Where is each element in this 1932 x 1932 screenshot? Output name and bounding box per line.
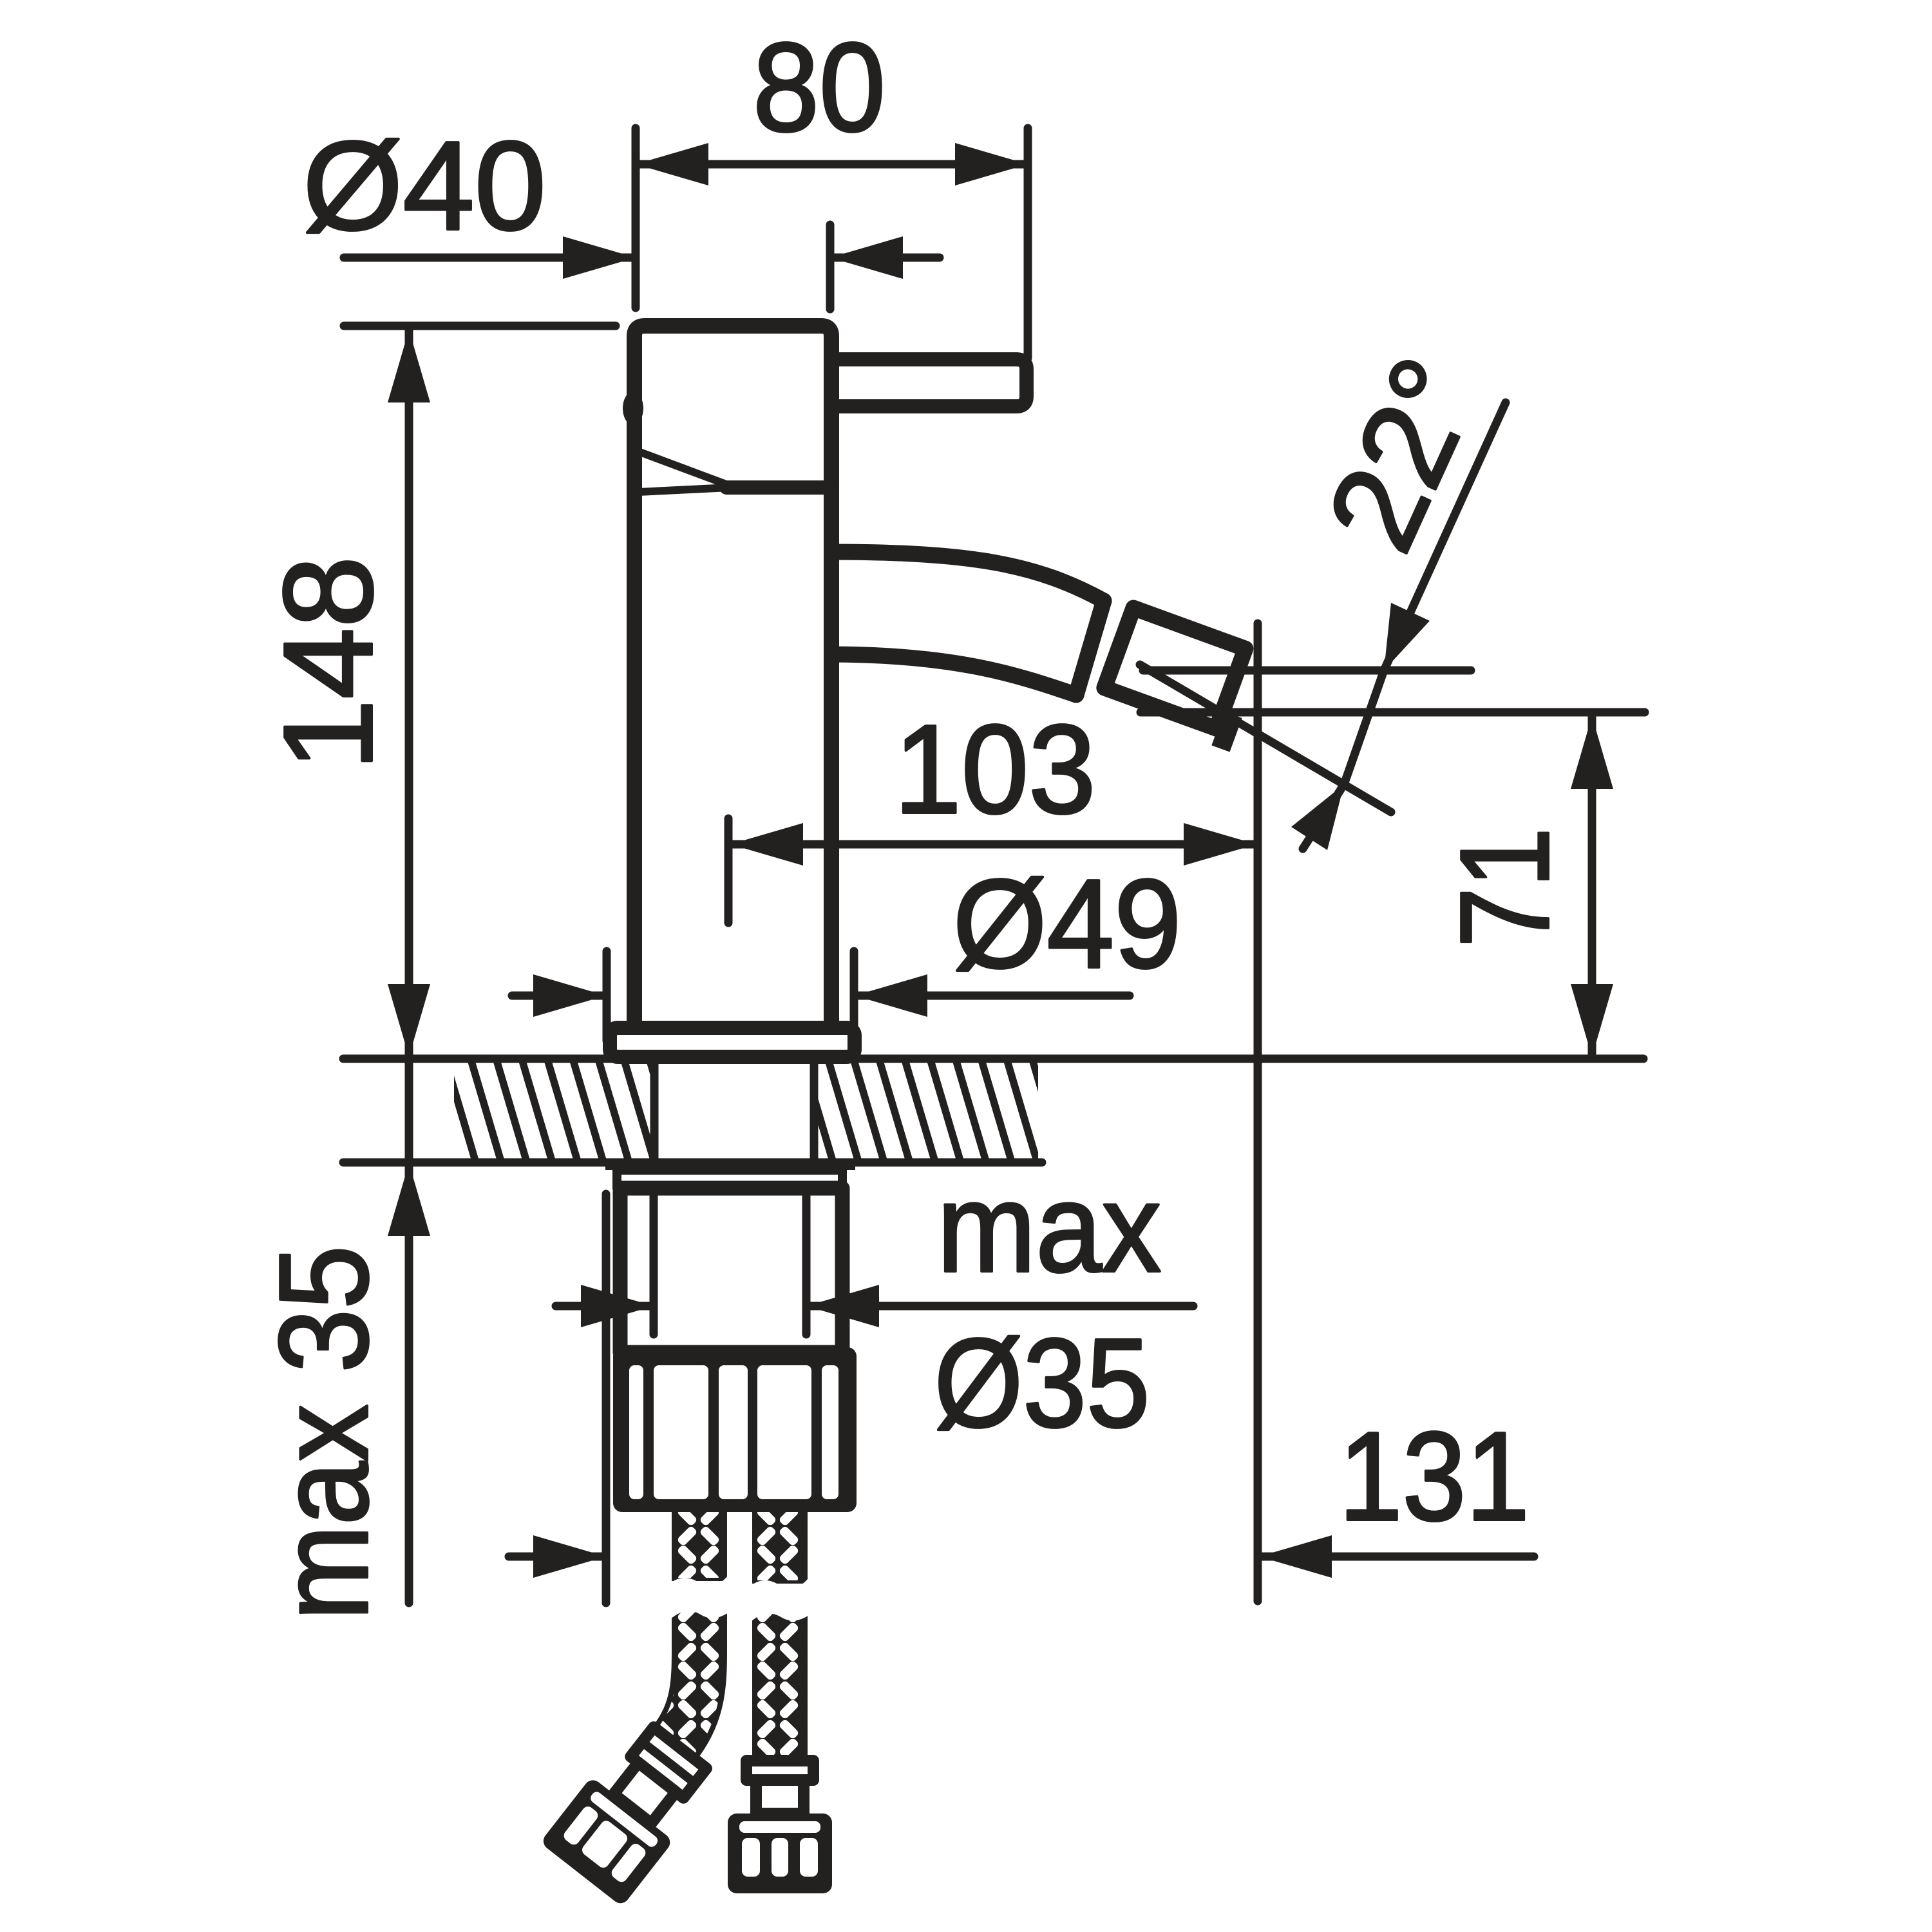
dimension max35: label [253, 1245, 394, 1620]
dimension 103: extension line stub [724, 819, 733, 923]
faucet spout [828, 552, 1104, 695]
dimension 148: bottom arrowhead [388, 984, 430, 1057]
dimension max35: up arrowhead [388, 1163, 430, 1236]
threaded shank right facet line [802, 1192, 811, 1334]
dimension D49: extension line right [850, 951, 858, 1041]
hose break cut waves [670, 1575, 728, 1596]
dimension maxD35: dimension line left part [556, 1302, 654, 1311]
svg-text:71: 71 [1434, 828, 1575, 947]
dimension 131: dimension line right part [1259, 1553, 1534, 1561]
svg-text:Ø40: Ø40 [303, 115, 546, 256]
dimension 103: left arrowhead [730, 823, 803, 866]
right hose end fitting with union nut [728, 1761, 832, 1893]
svg-text:80: 80 [753, 17, 885, 158]
angle 22deg: lower arrowhead [1291, 784, 1344, 850]
dimension D40: right arrowhead [830, 236, 903, 279]
dimension maxD35: right arrowhead [806, 1285, 879, 1327]
left hose end fitting with union nut (angled) [540, 1716, 721, 1907]
dimension D49: left arrowhead [533, 974, 606, 1017]
dimension D49: dimension line right part [855, 992, 1130, 1000]
dimension D40: dimension line left part [344, 254, 636, 262]
dimension 71: label [1434, 828, 1575, 947]
dimension D49: right arrowhead [855, 974, 927, 1017]
right supply hose lower braided segment [752, 1605, 808, 1766]
dimension 80: left arrowhead [636, 143, 708, 185]
svg-text:148: 148 [258, 556, 399, 771]
mounting hole left edge [650, 1059, 659, 1162]
handle lever [830, 359, 1027, 406]
dimension maxD35: dimension line right part [806, 1302, 1193, 1311]
mounting hex nut [613, 1347, 857, 1512]
dimension 103: dimension line [730, 840, 1256, 849]
dimension 71: dimension line [1588, 716, 1596, 1057]
dimension 80: extension line left [632, 128, 640, 308]
dimension D40: left arrowhead [563, 236, 636, 279]
dimension D40: dimension line right part [830, 254, 940, 262]
faucet body [634, 326, 831, 1030]
dimension 131: extension line right [1254, 623, 1262, 1601]
spout aerator nozzle (22 deg) [1099, 608, 1265, 752]
threaded shank below counter [620, 1188, 842, 1352]
svg-text:103: 103 [895, 699, 1096, 840]
dimension 103: right arrowhead [1184, 823, 1256, 866]
dimension 148: top arrowhead [388, 330, 430, 402]
svg-text:Ø35: Ø35 [934, 1312, 1150, 1454]
base flange [610, 1028, 855, 1057]
dimension 131: extension line left [602, 1194, 611, 1603]
dimension 131: left arrowhead [533, 1535, 606, 1578]
angle 22deg: angle dimension line upper segment [1384, 402, 1506, 670]
dimension 71: top arrowhead [1571, 716, 1613, 789]
countertop cross-section right hatch block [814, 1063, 1038, 1159]
dimension D40: extension line right [826, 225, 835, 309]
countertop cross-section left hatch block [454, 1063, 654, 1159]
dimension 80: extension line right [1024, 128, 1032, 358]
countertop top surface line [343, 1055, 1643, 1063]
left supply hose lower braided segment (curves left) [675, 1602, 699, 1743]
dimension D49: extension line left [603, 951, 611, 1041]
angle 22deg: nozzle axis line [1140, 665, 1391, 812]
handle skirt taper line lower [638, 488, 730, 492]
mounting hole right edge [810, 1059, 819, 1162]
angle 22deg: horizontal reference line lower [1141, 708, 1645, 717]
dimension 71: bottom arrowhead [1571, 984, 1613, 1057]
angle 22deg: angle dimension line lower tail [1303, 784, 1344, 849]
angle 22deg: horizontal reference line upper [1143, 667, 1471, 675]
svg-text:max 35: max 35 [253, 1245, 394, 1620]
dimension 131: right arrowhead [1259, 1535, 1332, 1578]
countertop bottom surface line [343, 1159, 1042, 1167]
handle pivot pin [623, 392, 643, 425]
angle 22deg: upper arrowhead [1384, 603, 1430, 670]
dimension maxD35: left arrowhead [581, 1285, 654, 1327]
dimension D49: dimension line left part [512, 992, 606, 1000]
dimension 131: dimension line left part [509, 1553, 606, 1561]
handle skirt taper line upper [638, 451, 730, 486]
washer under countertop [605, 1159, 855, 1170]
angle 22deg: label [1300, 338, 1508, 570]
dimension 148: top extension line [344, 322, 616, 330]
dimension 148: label [258, 556, 399, 771]
dimension 148 and max35: shared vertical dimension line [405, 330, 413, 1603]
dimension 80: right arrowhead [955, 143, 1028, 185]
svg-text:max: max [937, 1157, 1161, 1298]
body top joint line [726, 480, 829, 495]
threaded shank left facet line [650, 1192, 658, 1334]
left supply hose upper braided segment [672, 1507, 727, 1581]
svg-text:131: 131 [1339, 1406, 1529, 1547]
right supply hose upper braided segment [752, 1507, 808, 1584]
angle 22deg: angle dimension line middle segment [1344, 670, 1384, 784]
svg-text:Ø49: Ø49 [953, 853, 1182, 994]
dimension 80: dimension line [636, 160, 1028, 169]
